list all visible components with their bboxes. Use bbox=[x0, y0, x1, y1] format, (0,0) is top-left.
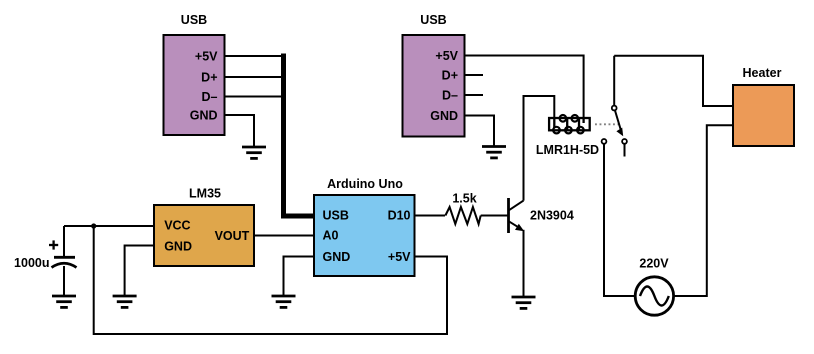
wire LM35 GND bbox=[125, 246, 154, 296]
ground bbox=[482, 147, 506, 158]
svg-text:D+: D+ bbox=[201, 71, 217, 85]
svg-text:Heater: Heater bbox=[743, 66, 782, 80]
svg-text:2N3904: 2N3904 bbox=[530, 209, 574, 223]
ground bbox=[52, 296, 76, 307]
Arduino Uno U2 bbox=[314, 177, 415, 276]
svg-text:LMR1H-5D: LMR1H-5D bbox=[536, 143, 599, 157]
wire VCC to +5V return bottom bbox=[94, 226, 447, 334]
wire Q1 emitter bbox=[523, 230, 525, 296]
switch S1 (relay contact) bbox=[602, 56, 627, 157]
svg-text:1000u: 1000u bbox=[14, 256, 49, 270]
wire heater bottom to AC source bbox=[674, 125, 734, 296]
svg-text:USB: USB bbox=[323, 209, 349, 223]
svg-text:+5V: +5V bbox=[195, 50, 218, 64]
svg-text:A0: A0 bbox=[323, 229, 339, 243]
resistor R1 1.5k bbox=[445, 192, 480, 225]
svg-text:220V: 220V bbox=[639, 257, 669, 271]
svg-text:VCC: VCC bbox=[164, 219, 190, 233]
wire Q1 collector to relay coil bbox=[524, 96, 555, 201]
mechanical link dotted bbox=[595, 123, 619, 125]
wire switch top to heater bbox=[614, 56, 733, 106]
heater load bbox=[733, 66, 794, 146]
wire USB cable (thick) bbox=[284, 54, 315, 217]
USB connector J2 bbox=[403, 13, 465, 137]
USB connector J1 bbox=[164, 13, 225, 135]
svg-text:LM35: LM35 bbox=[189, 187, 221, 201]
svg-text:D+: D+ bbox=[442, 69, 458, 83]
ground bbox=[272, 296, 296, 307]
svg-text:D10: D10 bbox=[388, 209, 411, 223]
ground bbox=[512, 297, 536, 308]
svg-text:GND: GND bbox=[164, 239, 192, 253]
wire J2 D- stub bbox=[465, 94, 484, 96]
wire J1 D- bbox=[225, 96, 285, 98]
wire J2 +5V to relay coil bbox=[465, 56, 584, 120]
LM35 temperature sensor U1 bbox=[154, 187, 254, 267]
svg-text:D–: D– bbox=[442, 89, 458, 103]
wire J2 GND bbox=[465, 116, 495, 146]
wire Arduino GND bbox=[284, 257, 315, 296]
wire J1 GND bbox=[225, 115, 255, 146]
wire LM35 VCC node bbox=[64, 225, 154, 227]
wire LM35 VOUT to Arduino A0 bbox=[254, 235, 314, 237]
relay K1 LMR1H-5D bbox=[536, 115, 599, 157]
svg-text:VOUT: VOUT bbox=[215, 229, 250, 243]
wire J2 D+ stub bbox=[465, 74, 484, 76]
node VCC junction bbox=[91, 223, 96, 228]
wire Arduino D10 to resistor bbox=[415, 215, 446, 217]
svg-text:1.5k: 1.5k bbox=[452, 192, 476, 206]
wire J1 D+ bbox=[225, 76, 285, 78]
svg-text:+5V: +5V bbox=[435, 49, 458, 63]
svg-text:Arduino Uno: Arduino Uno bbox=[327, 177, 403, 191]
svg-text:+5V: +5V bbox=[388, 250, 411, 264]
svg-text:GND: GND bbox=[190, 109, 218, 123]
ground bbox=[242, 147, 266, 158]
svg-text:D–: D– bbox=[202, 90, 218, 104]
svg-text:USB: USB bbox=[420, 13, 446, 27]
svg-text:USB: USB bbox=[181, 13, 207, 27]
wire switch common to AC source bbox=[604, 144, 635, 296]
wire resistor to Q1 base bbox=[481, 215, 508, 217]
AC source V1 220V bbox=[635, 257, 673, 316]
capacitor C1 1000u bbox=[14, 226, 76, 295]
wire J1 +5V bbox=[225, 55, 285, 57]
svg-text:GND: GND bbox=[430, 109, 458, 123]
svg-text:GND: GND bbox=[323, 250, 351, 264]
ground bbox=[113, 296, 137, 307]
transistor Q1 2N3904 bbox=[509, 198, 574, 233]
